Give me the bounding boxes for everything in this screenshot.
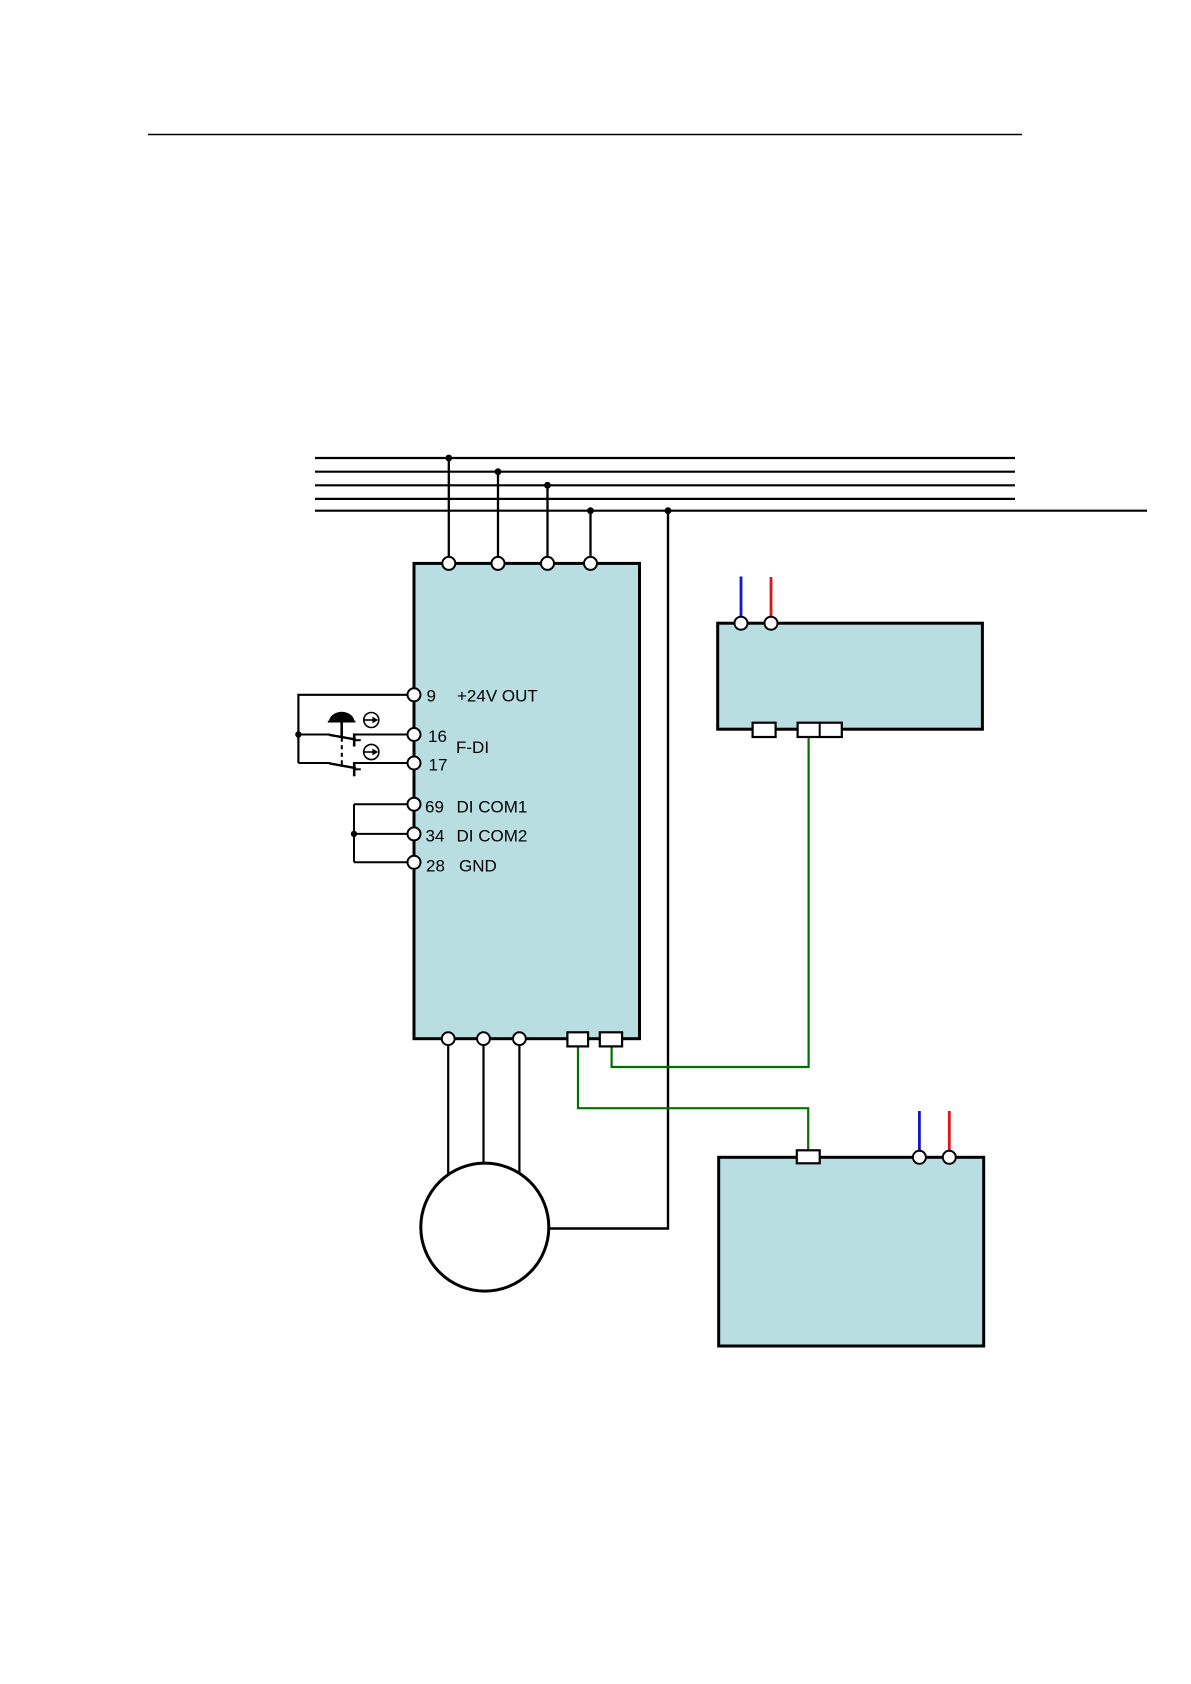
terminal 34: [408, 827, 421, 840]
motor M: [421, 1163, 549, 1291]
module 1 port (single square): [753, 723, 776, 737]
e-stop contact 1 (F-DI channel 16): [298, 733, 414, 746]
drive comm port B (square): [600, 1032, 622, 1046]
power bus PE: [315, 510, 1147, 512]
junction dot on L1: [445, 455, 452, 462]
module 2 block (bottom right): [719, 1157, 984, 1346]
module 1 red wire: [770, 577, 773, 618]
wire drive V to motor: [482, 1045, 484, 1170]
terminal 9: [408, 688, 421, 701]
wire drop L1 to drive input 1: [448, 458, 450, 565]
module 1 blue wire: [740, 577, 743, 619]
svg-text:GND: GND: [459, 856, 497, 875]
drive input terminal 4 (PE): [584, 557, 597, 570]
jumper wire 69-34-28: [354, 804, 414, 862]
drive output terminal U: [442, 1032, 455, 1045]
power bus L2: [315, 471, 1015, 473]
power bus N: [315, 498, 1015, 500]
terminal 28: [408, 856, 421, 869]
module 1 terminal B: [765, 617, 778, 630]
svg-text:69: 69: [425, 798, 444, 817]
junction dot on PE at drive drop: [587, 507, 594, 514]
svg-text:16: 16: [428, 727, 447, 746]
module 2 terminal A: [913, 1151, 926, 1164]
wire drop L2 to drive input 2: [497, 472, 499, 565]
svg-text:F-DI: F-DI: [456, 738, 489, 757]
svg-text:28: 28: [426, 856, 445, 875]
actuation direction symbol 1: [363, 713, 379, 728]
module 2 terminal B: [943, 1151, 956, 1164]
green cable drive port A to module 2: [578, 1046, 808, 1152]
svg-text:9: 9: [427, 686, 436, 705]
drive output terminal W: [513, 1032, 526, 1045]
drive comm port A (square): [567, 1032, 588, 1046]
wire PE to motor frame: [550, 511, 669, 1229]
wire drive U to motor: [447, 1045, 449, 1185]
wire terminal 9 to emergency stop: [298, 695, 414, 763]
module 1 block (top right): [718, 623, 983, 729]
actuation direction symbol 2: [363, 744, 379, 759]
junction dot on L3: [544, 482, 551, 489]
svg-text:17: 17: [429, 755, 448, 774]
module 2 red wire: [948, 1111, 951, 1152]
drive unit block: [414, 563, 640, 1038]
wire drop L3 to drive input 3: [546, 485, 548, 565]
svg-text:DI COM1: DI COM1: [457, 798, 528, 817]
module 2 port (square): [797, 1150, 820, 1163]
svg-text:DI COM2: DI COM2: [457, 827, 528, 846]
junction dot at e-stop branch: [295, 731, 301, 737]
junction dot on L2: [495, 468, 502, 475]
wire drop PE to drive input 4: [589, 511, 591, 565]
drive output terminal V: [477, 1032, 490, 1045]
drive input terminal 1: [442, 557, 455, 570]
junction dot on jumper at 34: [351, 831, 357, 837]
module 2 blue wire: [918, 1111, 921, 1152]
terminal 16: [408, 728, 421, 741]
terminal 17: [408, 757, 421, 770]
power bus L3: [315, 484, 1015, 486]
svg-text:+24V OUT: +24V OUT: [457, 686, 538, 705]
drive input terminal 2: [492, 557, 505, 570]
drive input terminal 3: [541, 557, 554, 570]
junction dot on PE at motor drop: [665, 507, 672, 514]
module 1 port (dual square): [798, 723, 842, 737]
wire drive W to motor: [518, 1045, 520, 1182]
power bus L1: [315, 457, 1015, 459]
emergency stop mushroom actuator S1: [328, 712, 356, 766]
e-stop contact 2 (F-DI channel 17): [298, 762, 414, 776]
terminal 69: [408, 798, 421, 811]
svg-text:34: 34: [426, 827, 445, 846]
green cable drive port B to module 1: [612, 736, 809, 1067]
module 1 terminal A: [735, 617, 748, 630]
